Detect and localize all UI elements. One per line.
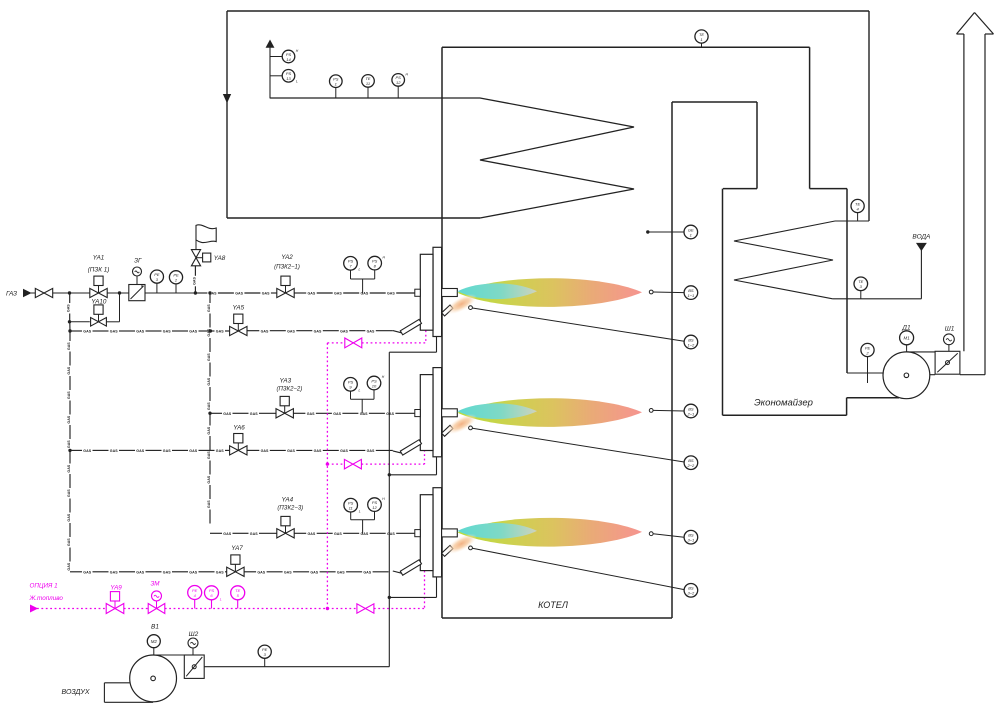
- svg-text:3: 3: [156, 277, 159, 282]
- svg-text:GAS: GAS: [216, 570, 224, 574]
- svg-text:8: 8: [374, 263, 377, 268]
- gas manifold riser x70: [69, 331, 71, 341]
- svg-text:GAS: GAS: [163, 570, 171, 574]
- svg-text:14: 14: [286, 57, 291, 62]
- wire YA9 to ZM: [124, 608, 148, 610]
- svg-text:GAS: GAS: [361, 532, 369, 536]
- svg-text:YA2: YA2: [281, 254, 293, 261]
- svg-text:GAS: GAS: [67, 440, 71, 448]
- fan inlet duct from economizer: [847, 372, 883, 374]
- wire burner2 gas line right: [293, 412, 305, 414]
- svg-text:YA7: YA7: [231, 545, 243, 552]
- igniter flame burner 1: [443, 290, 479, 318]
- liquid fuel inlet arrow: [31, 605, 38, 611]
- economizer bottom edge: [723, 414, 847, 416]
- svg-text:3: 3: [264, 652, 267, 657]
- svg-text:6: 6: [210, 593, 213, 598]
- wire burner2 gas line left: [210, 412, 222, 414]
- flue step into economizer left: [723, 188, 757, 190]
- instrument BS2-2: [684, 456, 698, 470]
- ignition sensor node burner 2: [469, 426, 473, 430]
- vent valve YA8: [194, 266, 196, 276]
- wire igniter gas line burner1: [70, 330, 82, 332]
- svg-text:YA9: YA9: [110, 585, 122, 592]
- wire igniter line burner3 right: [244, 571, 256, 573]
- wire drum bottom edge: [227, 217, 480, 219]
- svg-text:(ПЗК 1): (ПЗК 1): [88, 266, 110, 273]
- instrument GE1: [684, 225, 698, 239]
- svg-text:GAS: GAS: [67, 464, 71, 472]
- ignition sensor node burner 1: [469, 306, 473, 310]
- wire flame sensor 2 burner 2: [472, 428, 684, 462]
- instrument TE5 fuel: [231, 586, 245, 600]
- svg-text:GAS: GAS: [223, 532, 231, 536]
- svg-text:Экономайзер: Экономайзер: [754, 398, 813, 409]
- svg-text:Ш1: Ш1: [945, 325, 955, 332]
- svg-text:H: H: [382, 497, 385, 501]
- economizer outlet step: [846, 398, 848, 416]
- wire fuel riser burner1: [425, 330, 427, 343]
- wire steam outlet riser: [269, 44, 271, 98]
- instrument PE3 gas: [150, 270, 163, 283]
- instrument PE4 fuel: [188, 586, 202, 600]
- svg-text:L: L: [359, 268, 361, 272]
- svg-text:GAS: GAS: [83, 570, 91, 574]
- wire feedwater line to drum: [835, 220, 869, 222]
- svg-text:GAS: GAS: [67, 489, 71, 497]
- svg-text:1: 1: [690, 232, 692, 237]
- svg-text:GAS: GAS: [314, 449, 322, 453]
- burner 3 nozzle: [442, 529, 458, 537]
- svg-text:GAS: GAS: [387, 292, 395, 296]
- damper Sh1 box: [935, 351, 960, 374]
- instrument PS1: [335, 88, 337, 99]
- svg-text:GAS: GAS: [67, 342, 71, 350]
- node junction manifold riser: [208, 291, 211, 294]
- instrument PE2 gas: [169, 271, 182, 284]
- wire flame sensor 2 burner 3: [472, 548, 684, 589]
- svg-text:3−2: 3−2: [688, 591, 696, 596]
- wire fuel branch burner1: [327, 342, 345, 344]
- burner 2 nozzle: [442, 409, 458, 417]
- svg-text:2: 2: [174, 278, 178, 283]
- svg-text:GAS: GAS: [363, 570, 371, 574]
- burner 2 igniter pipe: [393, 451, 402, 453]
- svg-text:GAS: GAS: [189, 330, 197, 334]
- svg-text:КОТЕЛ: КОТЕЛ: [538, 600, 569, 610]
- economizer outlet duct bottom to fan: [847, 397, 899, 399]
- svg-text:3: 3: [860, 284, 863, 289]
- water inlet arrow: [917, 243, 926, 250]
- instrument pair PS11 PS12 burner3: [344, 498, 358, 512]
- instrument TE3: [860, 291, 862, 299]
- burner 3 body: [433, 488, 442, 577]
- svg-text:12: 12: [396, 80, 401, 85]
- wire igniter gas line burner2: [70, 449, 82, 451]
- svg-text:GAS: GAS: [207, 353, 211, 361]
- svg-text:GAS: GAS: [235, 292, 243, 296]
- svg-text:GAS: GAS: [310, 570, 318, 574]
- svg-text:ВОДА: ВОДА: [912, 233, 930, 240]
- wire gas inlet: [31, 292, 36, 294]
- flame burner 3: [458, 518, 643, 547]
- svg-text:ОПЦИЯ 1: ОПЦИЯ 1: [30, 583, 58, 590]
- svg-text:2−2: 2−2: [687, 463, 696, 468]
- wire ZG to instruments: [145, 292, 195, 294]
- burner 3 igniter pipe: [393, 571, 402, 573]
- svg-text:GAS: GAS: [333, 412, 341, 416]
- svg-text:1−2: 1−2: [688, 342, 696, 347]
- burner 1 nozzle: [442, 289, 458, 297]
- svg-text:М1: М1: [904, 336, 911, 341]
- svg-text:13: 13: [286, 76, 291, 81]
- wire gas main to YA2: [195, 292, 207, 294]
- svg-text:GAS: GAS: [250, 532, 258, 536]
- wire burner3 gas line left: [210, 532, 222, 534]
- flue downcomer right wall: [809, 47, 811, 188]
- svg-text:GAS: GAS: [67, 415, 71, 423]
- wire fuel branch burner2 right: [361, 463, 424, 465]
- wire ZM to instruments: [165, 608, 328, 610]
- instrument PE2 flue: [861, 343, 874, 356]
- gas inlet arrow: [24, 290, 31, 297]
- instrument BS1-1: [684, 286, 698, 300]
- svg-text:GAS: GAS: [387, 532, 395, 536]
- svg-text:GAS: GAS: [83, 330, 91, 334]
- flue downcomer left wall: [756, 102, 758, 189]
- svg-text:GAS: GAS: [67, 391, 71, 399]
- node junction YA8 branch: [194, 291, 197, 294]
- chimney: [963, 34, 965, 351]
- burner 1 gas stub: [415, 289, 421, 296]
- svg-text:GAS: GAS: [67, 366, 71, 374]
- svg-text:GAS: GAS: [207, 377, 211, 385]
- air fan B1 scroll: [130, 655, 177, 702]
- wire drum top edge: [227, 10, 869, 12]
- svg-text:GAS: GAS: [261, 449, 269, 453]
- air branch burner1: [389, 351, 436, 353]
- wire igniter line burner1 right: [247, 330, 259, 332]
- furnace sensor node GE1: [646, 230, 649, 233]
- ignition sensor node burner 3: [469, 546, 473, 550]
- svg-text:YA5: YA5: [233, 304, 245, 311]
- node air junction burner3: [388, 596, 391, 599]
- wire fuel riser burner2: [424, 450, 426, 464]
- instrument BS2-1: [684, 404, 698, 418]
- svg-text:GAS: GAS: [367, 329, 375, 333]
- flame tip node burner 3: [649, 532, 653, 536]
- flame tip node burner 1: [649, 290, 653, 294]
- svg-text:GAS: GAS: [163, 330, 171, 334]
- svg-text:GAS: GAS: [83, 449, 91, 453]
- instrument TE11: [367, 87, 369, 98]
- node bypass junction: [68, 320, 71, 323]
- svg-text:GAS: GAS: [340, 449, 348, 453]
- svg-text:12: 12: [372, 505, 377, 510]
- svg-text:YA1: YA1: [93, 255, 105, 262]
- flame burner 2: [458, 398, 643, 427]
- svg-text:L: L: [359, 389, 361, 393]
- svg-text:GAS: GAS: [367, 449, 375, 453]
- svg-text:GAS: GAS: [163, 449, 171, 453]
- svg-text:(ПЗК2−2): (ПЗК2−2): [277, 387, 303, 393]
- svg-text:4: 4: [194, 593, 197, 598]
- flow arrow down on drum left edge: [224, 95, 231, 103]
- svg-text:YA4: YA4: [282, 497, 294, 504]
- svg-text:2−1: 2−1: [687, 411, 695, 416]
- instrument BS3-1: [684, 530, 698, 544]
- instrument TE1: [701, 43, 703, 47]
- wire burner3 gas line right: [294, 532, 306, 534]
- svg-text:1: 1: [335, 82, 337, 87]
- svg-text:7: 7: [349, 264, 352, 269]
- svg-text:11: 11: [349, 506, 353, 511]
- burner 2 body: [433, 368, 442, 457]
- svg-text:GAS: GAS: [136, 570, 144, 574]
- svg-text:М2: М2: [151, 639, 158, 644]
- svg-text:(ПЗК2−1): (ПЗК2−1): [274, 265, 300, 271]
- flue step into economizer right: [810, 188, 847, 190]
- svg-text:5: 5: [237, 593, 240, 598]
- svg-text:ЗМ: ЗМ: [150, 580, 160, 587]
- svg-text:GAS: GAS: [189, 570, 197, 574]
- wire fuel branch burner2: [327, 463, 344, 465]
- svg-text:YA3: YA3: [280, 378, 292, 385]
- air branch burner2: [389, 474, 436, 476]
- svg-text:GAS: GAS: [136, 330, 144, 334]
- svg-text:GAS: GAS: [207, 475, 211, 483]
- svg-text:GAS: GAS: [67, 513, 71, 521]
- instrument pair PS9 PS10 burner2: [344, 378, 358, 392]
- svg-text:GAS: GAS: [207, 426, 211, 434]
- bypass down left: [69, 293, 71, 303]
- svg-text:10: 10: [372, 383, 377, 388]
- instrument PS13 low: [270, 75, 282, 77]
- air riser to burners: [388, 352, 390, 667]
- boiler bottom edge: [442, 617, 672, 619]
- node gas junction B: [118, 291, 121, 294]
- svg-text:В1: В1: [151, 624, 159, 631]
- svg-text:GAS: GAS: [361, 292, 369, 296]
- burner 2 igniter nozzle: [442, 425, 453, 436]
- svg-text:GAS: GAS: [250, 412, 258, 416]
- svg-text:GAS: GAS: [110, 330, 118, 334]
- wire liquid fuel main line: [37, 608, 106, 610]
- svg-text:3−1: 3−1: [688, 538, 695, 543]
- flame tip node burner 2: [649, 409, 653, 413]
- svg-text:(ПЗК2−3): (ПЗК2−3): [277, 505, 303, 511]
- manual valve gas inlet: [35, 288, 44, 297]
- gas manifold riser x210: [209, 293, 211, 303]
- svg-text:11: 11: [366, 81, 370, 86]
- flame burner 1: [458, 278, 643, 307]
- water inlet line VODA: [833, 298, 922, 300]
- wire flame sensor 2 burner 1: [472, 308, 684, 341]
- svg-text:ЗГ: ЗГ: [134, 257, 142, 264]
- svg-text:GAS: GAS: [67, 562, 71, 570]
- instrument PS14 high: [270, 56, 282, 58]
- svg-text:Ш2: Ш2: [189, 631, 199, 638]
- svg-text:GAS: GAS: [287, 449, 295, 453]
- instrument BS3-2: [684, 584, 698, 598]
- svg-text:GAS: GAS: [386, 412, 394, 416]
- wire flame sensor 1 burner 2: [653, 409, 684, 412]
- svg-text:1−1: 1−1: [688, 293, 695, 298]
- svg-text:ВОЗДУХ: ВОЗДУХ: [61, 689, 89, 696]
- svg-text:ГАЗ: ГАЗ: [6, 290, 17, 297]
- svg-text:GAS: GAS: [216, 449, 224, 453]
- valve fuel burner3: [357, 604, 366, 613]
- vent flag: [195, 225, 197, 249]
- drum heat-exchanger zigzag: [270, 98, 634, 218]
- air branch burner3: [389, 596, 436, 598]
- boiler left wall: [441, 47, 443, 618]
- fuel manifold riser magenta: [326, 343, 328, 609]
- svg-text:GAS: GAS: [284, 570, 292, 574]
- svg-text:GAS: GAS: [334, 532, 342, 536]
- svg-text:GAS: GAS: [261, 329, 269, 333]
- wire YA1 to ZG: [107, 292, 129, 294]
- valve YA10 bypass: [70, 321, 90, 323]
- instrument pair PS7 PS8 burner1: [344, 257, 358, 271]
- valve fuel burner1: [345, 338, 354, 348]
- svg-text:YA6: YA6: [233, 425, 245, 432]
- instrument BS1-2: [684, 335, 698, 349]
- node riser crossing igniter line: [209, 329, 212, 332]
- wire fuel line to valve3: [327, 608, 357, 610]
- igniter flame burner 3: [443, 530, 479, 558]
- svg-text:H: H: [382, 255, 385, 259]
- burner 2 gas stub: [415, 410, 421, 417]
- svg-text:GAS: GAS: [257, 570, 265, 574]
- node gas junction A: [68, 291, 71, 294]
- svg-text:H: H: [296, 49, 299, 53]
- svg-text:GAS: GAS: [189, 449, 197, 453]
- svg-text:GAS: GAS: [308, 532, 316, 536]
- economizer coil zigzag: [734, 221, 835, 299]
- wire feedwater riser right: [868, 11, 870, 221]
- air inlet duct: [104, 682, 130, 684]
- svg-text:2: 2: [865, 350, 869, 355]
- wire igniter line burner2 right: [247, 449, 259, 451]
- svg-text:GAS: GAS: [207, 500, 211, 508]
- wire fuel line to burner3 riser: [374, 608, 425, 610]
- wire to YA1: [53, 292, 90, 294]
- flow arrow up steam outlet: [266, 41, 273, 48]
- svg-text:L: L: [220, 597, 222, 601]
- svg-text:L: L: [359, 510, 361, 514]
- flue fan D1 scroll: [883, 352, 930, 399]
- svg-text:GAS: GAS: [207, 304, 211, 312]
- burner 3 gas stub: [415, 530, 421, 537]
- wire flame sensor 1 burner 1: [653, 291, 684, 294]
- boiler top edge: [442, 46, 810, 48]
- flue pass top from boiler to downcomer: [672, 101, 757, 103]
- wire air duct to burners: [204, 666, 389, 668]
- node junction burner2 line: [208, 412, 211, 415]
- svg-text:GAS: GAS: [207, 402, 211, 410]
- economizer left wall: [722, 189, 724, 416]
- wire fuel branch burner1 right: [362, 342, 426, 344]
- svg-text:GAS: GAS: [360, 412, 368, 416]
- instrument PS12 high: [397, 86, 399, 98]
- svg-text:H: H: [382, 375, 385, 379]
- svg-text:GAS: GAS: [110, 449, 118, 453]
- svg-text:GAS: GAS: [192, 277, 196, 285]
- svg-text:GAS: GAS: [216, 330, 224, 334]
- instrument PS6 fuel: [205, 586, 219, 600]
- economizer right wall: [846, 189, 848, 373]
- svg-text:H: H: [405, 73, 408, 77]
- svg-text:GAS: GAS: [308, 292, 316, 296]
- wire flame sensor 1 burner 3: [653, 534, 684, 538]
- svg-text:GAS: GAS: [136, 449, 144, 453]
- instrument PE3 air: [258, 645, 271, 658]
- wire drum left edge: [226, 11, 228, 218]
- svg-text:9: 9: [349, 385, 352, 390]
- svg-text:GAS: GAS: [287, 329, 295, 333]
- igniter flame burner 2: [443, 410, 479, 438]
- node air junction burner2: [388, 473, 391, 476]
- wire GE1: [648, 231, 684, 233]
- node fuel junction burner2: [326, 462, 329, 465]
- svg-text:GAS: GAS: [223, 412, 231, 416]
- wire igniter gas line burner3: [70, 571, 82, 573]
- damper Sh2 box: [184, 655, 204, 678]
- svg-text:GAS: GAS: [67, 538, 71, 546]
- valve fuel burner2: [344, 459, 353, 469]
- svg-text:GAS: GAS: [67, 304, 71, 312]
- wire fuel riser burner3: [424, 571, 426, 609]
- svg-text:GAS: GAS: [307, 412, 315, 416]
- svg-text:GAS: GAS: [314, 329, 322, 333]
- svg-text:GAS: GAS: [262, 292, 270, 296]
- svg-text:GAS: GAS: [337, 570, 345, 574]
- svg-text:1: 1: [700, 37, 702, 42]
- svg-text:4: 4: [856, 206, 859, 211]
- svg-text:GAS: GAS: [334, 292, 342, 296]
- burner 1 igniter nozzle: [442, 305, 453, 316]
- instrument TE4: [857, 213, 859, 221]
- svg-text:Ж.топливо: Ж.топливо: [29, 595, 64, 602]
- svg-text:YA8: YA8: [214, 255, 226, 262]
- burner 1 body: [433, 247, 442, 336]
- burner 3 igniter nozzle: [442, 545, 453, 556]
- svg-text:GAS: GAS: [207, 451, 211, 459]
- svg-text:GAS: GAS: [340, 329, 348, 333]
- node fuel junction riser: [326, 607, 329, 610]
- burner 1 igniter pipe: [393, 331, 402, 333]
- svg-text:L: L: [296, 80, 298, 84]
- wire YA2 to burner1: [294, 292, 306, 294]
- wire bypass rejoin: [106, 321, 119, 323]
- boiler right wall: [671, 102, 673, 618]
- svg-text:GAS: GAS: [110, 570, 118, 574]
